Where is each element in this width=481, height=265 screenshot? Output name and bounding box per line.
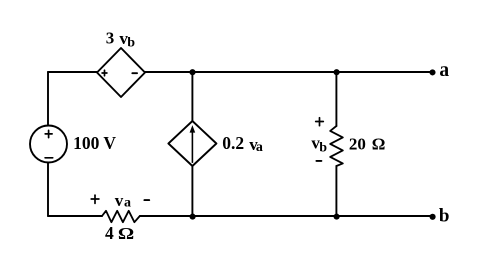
wire left lower vertical (47, 162, 49, 216)
svg-text:a: a (124, 196, 131, 211)
svg-text:100 V: 100 V (73, 133, 116, 153)
voltage source 100V circle (30, 126, 67, 163)
wire bottom-left segment (48, 215, 102, 217)
dependent current source 0.2va diamond (168, 121, 216, 166)
plus sign inside voltage source (45, 130, 52, 137)
svg-text:0.2: 0.2 (222, 133, 244, 153)
wire bottom-right segment (140, 215, 432, 217)
junction node top middle (189, 69, 195, 75)
svg-text:20: 20 (349, 134, 366, 153)
junction node top right (334, 69, 340, 75)
junction node bottom right (334, 214, 340, 220)
svg-text:a: a (256, 140, 263, 155)
label plus above 4 ohm resistor (91, 195, 99, 203)
label 3 vb (106, 29, 136, 51)
junction node bottom middle (190, 214, 196, 220)
terminal a dot (429, 69, 435, 75)
dependent voltage source 3vb diamond (97, 48, 145, 97)
svg-text:b: b (439, 205, 450, 226)
label 4 ohm value (105, 223, 134, 244)
svg-text:a: a (439, 60, 449, 81)
svg-text:Ω: Ω (118, 224, 134, 243)
plus sign inside dependent source (102, 70, 107, 76)
svg-text:Ω: Ω (372, 134, 386, 153)
arrow of current source (190, 125, 196, 162)
svg-text:3: 3 (106, 29, 115, 48)
label 20 ohm value (349, 134, 386, 153)
label vb beside 20 ohm resistor (311, 134, 327, 156)
minus sign inside dependent source (132, 72, 137, 74)
label va above 4 ohm resistor (115, 191, 131, 211)
label minus above 4 ohm resistor (144, 199, 149, 201)
resistor R1 4 ohm zigzag (102, 211, 140, 222)
svg-text:4: 4 (105, 223, 114, 243)
wire top-right segment (145, 71, 432, 73)
wire top-left segment (48, 71, 97, 73)
wire right upper vertical (335, 72, 337, 126)
label plus above vb (316, 118, 324, 126)
svg-text:b: b (127, 36, 135, 51)
label 0.2 va (222, 133, 263, 155)
wire middle upper vertical (191, 72, 193, 121)
wire middle lower vertical (191, 166, 193, 216)
wire right lower vertical (335, 166, 337, 216)
svg-text:b: b (319, 140, 327, 155)
wire left upper vertical (47, 72, 49, 126)
minus sign inside voltage source (45, 157, 53, 159)
label minus below vb (316, 160, 321, 162)
svg-text:v: v (115, 191, 124, 210)
resistor R2 20 ohm zigzag (330, 126, 343, 166)
terminal b dot (430, 214, 436, 220)
